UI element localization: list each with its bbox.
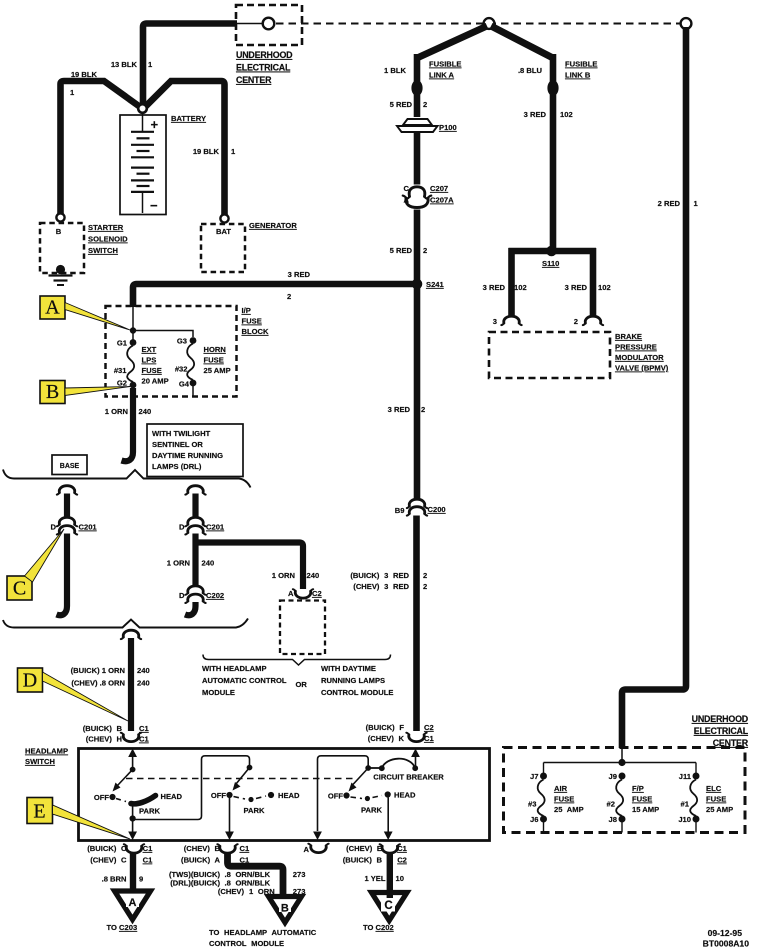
label TO HEADLAMP AUTOMATIC CONTROL MODULE: [209, 928, 317, 948]
labels 3 RED 102 (legs): [483, 283, 611, 292]
label P100: [439, 123, 457, 132]
labels (TWS)(BUICK) .8 ORN/BLK 273 rows: [169, 870, 306, 879]
svg-text:3 RED: 3 RED: [483, 283, 506, 292]
svg-text:AIR: AIR: [554, 784, 568, 793]
svg-text:BAT: BAT: [216, 227, 231, 236]
svg-text:FUSIBLE: FUSIBLE: [565, 60, 598, 69]
svg-text:(CHEV) E: (CHEV) E: [346, 844, 382, 853]
svg-text:J11: J11: [679, 772, 692, 781]
svg-text:(BUICK) A: (BUICK) A: [181, 856, 220, 865]
svg-text:HORN: HORN: [204, 345, 226, 354]
wire 1 ORN below fuse block: [122, 388, 134, 461]
switch 3 labels HEAD PARK: [361, 791, 416, 815]
svg-text:C1: C1: [240, 844, 250, 853]
labels (BUICK) 1 ORN 240 / (CHEV) .8 ORN 240: [71, 666, 150, 688]
switch 3 OFF terminal: [328, 792, 350, 801]
svg-text:C: C: [404, 184, 410, 193]
wire drl branch lower: [185, 602, 196, 615]
svg-text:C202: C202: [206, 591, 224, 600]
svg-text:BASE: BASE: [60, 463, 80, 470]
svg-text:.8 BLU: .8 BLU: [518, 66, 543, 75]
callout D: [43, 672, 129, 721]
switch 1 output arrow: [128, 819, 137, 841]
svg-text:MODULATOR: MODULATOR: [615, 353, 664, 362]
svg-text:PARK: PARK: [139, 807, 160, 816]
label HORN FUSE 25 AMP: [204, 345, 231, 375]
svg-text:SWITCH: SWITCH: [25, 757, 55, 766]
callout E: [53, 805, 131, 839]
wire stub inside UEC box: [237, 23, 263, 25]
connector E/B C1 C2 (output 4): [343, 844, 408, 865]
svg-text:G3: G3: [177, 337, 187, 346]
label .8 BLU: [518, 66, 543, 75]
svg-text:D: D: [51, 523, 57, 532]
HORN fuse #32: [175, 344, 194, 381]
svg-text:240: 240: [139, 407, 152, 416]
svg-text:C2: C2: [424, 723, 434, 732]
svg-text:G1: G1: [117, 339, 128, 348]
ground (starter solenoid): [49, 265, 73, 285]
label 1 ORN 240 (module leg): [272, 571, 319, 580]
svg-text:LINK A: LINK A: [429, 71, 455, 80]
wire 1 YEL to triangle C: [387, 853, 393, 898]
svg-text:RUNNING LAMPS: RUNNING LAMPS: [321, 676, 385, 685]
splice S110: [509, 246, 597, 268]
ELC fuse J11/J10 #1: [690, 763, 699, 833]
triangle B: [269, 897, 302, 923]
wire 2 RED right side down to UEC: [622, 27, 686, 748]
wire base branch upper: [64, 494, 70, 518]
svg-text:HEAD: HEAD: [394, 791, 416, 800]
svg-text:3 RED: 3 RED: [288, 270, 311, 279]
terminal circle starter: [56, 213, 64, 221]
svg-text:PRESSURE: PRESSURE: [615, 343, 657, 352]
svg-text:BLOCK: BLOCK: [242, 327, 270, 336]
switch 2 pivot: [247, 765, 253, 771]
svg-text:2: 2: [421, 405, 425, 414]
svg-text:(CHEV) 3 RED: (CHEV) 3 RED: [353, 582, 409, 591]
wire C200 down to headlamp switch: [413, 516, 420, 732]
svg-text:C1: C1: [397, 844, 407, 853]
svg-text:FUSE: FUSE: [204, 356, 224, 365]
svg-text:EXT: EXT: [142, 345, 157, 354]
triangle C: [372, 893, 408, 921]
svg-text:A: A: [304, 845, 310, 854]
svg-text:A: A: [129, 897, 137, 909]
svg-text:3: 3: [493, 317, 497, 326]
svg-text:1 ORN: 1 ORN: [105, 407, 128, 416]
switch 2 dashes and PARK HEAD terminals: [234, 792, 275, 802]
svg-text:TO C202: TO C202: [363, 923, 394, 932]
callout B: [65, 387, 130, 396]
node circle in UEC box: [263, 18, 275, 30]
section divider fold 1: [3, 470, 251, 488]
svg-text:C1: C1: [143, 856, 153, 865]
label 19 BLK 1 (right): [193, 147, 236, 156]
svg-text:−: −: [150, 198, 158, 213]
headlamp control module box: [280, 601, 325, 655]
svg-text:J10: J10: [678, 815, 691, 824]
wire S110 left leg: [508, 248, 515, 316]
switch 1 blade to OFF: [113, 770, 133, 792]
wire 13 BLK battery to underhood electrical center: [143, 24, 237, 105]
wire A terminal to switch 3 pivot: [318, 756, 369, 831]
connector C1 (headlamp switch feed): [121, 733, 141, 742]
svg-text:240: 240: [137, 666, 150, 675]
switch 2 output arrow from OFF: [225, 798, 234, 840]
pin 2 connector: [574, 316, 603, 326]
pin G2: [117, 379, 137, 389]
svg-text:ELC: ELC: [706, 784, 722, 793]
label 3 RED 2 (horizontal): [287, 270, 311, 301]
pin 3 connector: [493, 316, 522, 326]
switch 3 blade to OFF: [349, 768, 369, 792]
svg-text:.8 BRN: .8 BRN: [102, 875, 127, 884]
circuit breaker: [368, 759, 418, 771]
label TO C203: [107, 923, 138, 932]
label I/P FUSE BLOCK: [242, 306, 270, 336]
label 5 RED 2 (lower): [390, 246, 428, 255]
wire break (drl branch): [185, 486, 205, 495]
svg-text:5 RED: 5 RED: [390, 246, 413, 255]
svg-text:STARTER: STARTER: [88, 223, 124, 232]
pin G3: [177, 337, 197, 346]
brace under module: [203, 655, 391, 666]
labels (BUICK) B C1 / (CHEV) H C1: [83, 724, 150, 744]
svg-text:(BUICK) B: (BUICK) B: [343, 856, 383, 865]
svg-text:A: A: [45, 297, 60, 319]
wire drl branch middle: [192, 534, 198, 588]
svg-text:J6: J6: [530, 815, 538, 824]
label 19 BLK 1 (left): [70, 70, 98, 97]
BASE box: [52, 455, 87, 475]
terminal circle generator BAT: [220, 214, 228, 222]
svg-text:9: 9: [139, 875, 143, 884]
svg-text:D: D: [179, 523, 185, 532]
svg-text:2: 2: [423, 100, 427, 109]
circuit breaker entry arrow: [411, 749, 420, 769]
labels (BUICK) F C2 / (CHEV) K C1: [366, 723, 435, 743]
node circle at top junction (fusible links): [484, 18, 495, 29]
svg-text:J9: J9: [609, 772, 617, 781]
fusible link A bead: [411, 80, 422, 96]
svg-text:273: 273: [293, 870, 306, 879]
wire S110 right leg: [590, 248, 597, 316]
dashed wire across top: [276, 23, 683, 25]
svg-text:B: B: [281, 903, 289, 915]
svg-text:BT0008A10: BT0008A10: [703, 939, 750, 949]
svg-text:(CHEV) H: (CHEV) H: [86, 735, 122, 744]
svg-text:ELECTRICAL: ELECTRICAL: [694, 726, 749, 736]
svg-text:CIRCUIT BREAKER: CIRCUIT BREAKER: [373, 773, 444, 782]
svg-text:C1: C1: [139, 724, 149, 733]
junction node at battery top: [138, 104, 147, 113]
wire S241 down to C200: [414, 284, 421, 499]
wire to triangle B: [228, 852, 284, 902]
label 3 RED 102 (link B): [524, 110, 573, 119]
svg-text:UNDERHOOD: UNDERHOOD: [236, 50, 293, 60]
yellow label E: [27, 798, 53, 824]
svg-text:1 ORN: 1 ORN: [272, 571, 295, 580]
svg-text:102: 102: [560, 110, 573, 119]
svg-text:WITH TWILIGHT: WITH TWILIGHT: [152, 429, 211, 438]
svg-text:1 ORN: 1 ORN: [167, 559, 190, 568]
starter solenoid switch box: [40, 223, 84, 273]
svg-text:S110: S110: [542, 259, 559, 268]
svg-text:(CHEV) .8 ORN: (CHEV) .8 ORN: [71, 679, 125, 688]
svg-text:P100: P100: [439, 123, 457, 132]
callout A: [65, 303, 130, 331]
wire apex to fusible link B: [491, 26, 553, 58]
label 13 BLK 1: [111, 60, 153, 69]
svg-text:2: 2: [423, 582, 427, 591]
svg-text:(BUICK) F: (BUICK) F: [366, 723, 405, 732]
wire fusible link A down: [414, 54, 421, 117]
svg-text:C: C: [13, 578, 26, 600]
svg-text:A: A: [404, 196, 410, 205]
svg-text:FUSIBLE: FUSIBLE: [429, 60, 462, 69]
svg-text:C201: C201: [206, 523, 225, 532]
svg-text:(CHEV) C: (CHEV) C: [90, 856, 127, 865]
connector C2/C1 (headlamp switch feed): [406, 733, 426, 742]
svg-text:C200: C200: [428, 505, 446, 514]
wire into UEC and bus: [544, 748, 697, 766]
switch 1 entry arrow: [128, 749, 137, 770]
svg-text:09-12-95: 09-12-95: [708, 928, 743, 938]
svg-text:#31: #31: [114, 366, 127, 375]
wire branch to headlamp module: [196, 543, 304, 590]
with twilight sentinel box: [147, 424, 243, 477]
svg-text:PARK: PARK: [244, 806, 265, 815]
svg-text:LINK B: LINK B: [565, 71, 591, 80]
svg-text:(BUICK) 3 RED: (BUICK) 3 RED: [350, 571, 409, 580]
switch 1 park node: [130, 803, 136, 822]
label WITH HEADLAMP AUTOMATIC CONTROL MODULE OR WITH DAYTIME RUNNING LAMPS CONTROL MODULE: [202, 664, 393, 697]
svg-text:2: 2: [423, 571, 427, 580]
wire apex to fusible link A: [417, 26, 487, 58]
svg-text:CONTROL MODULE: CONTROL MODULE: [321, 688, 393, 697]
wire .8 BRN to triangle A: [130, 853, 136, 897]
svg-text:HEADLAMP: HEADLAMP: [25, 747, 68, 756]
label 3 RED 2 (middle): [388, 405, 426, 414]
svg-text:ELECTRICAL: ELECTRICAL: [236, 63, 291, 73]
node A junction in fuse block: [130, 307, 136, 340]
svg-text:SENTINEL OR: SENTINEL OR: [152, 440, 203, 449]
svg-text:SOLENOID: SOLENOID: [88, 235, 128, 244]
svg-text:FUSE: FUSE: [632, 795, 652, 804]
triangle A: [115, 891, 151, 920]
wire headlamp switch feed: [128, 638, 134, 731]
connector C200: [407, 499, 427, 515]
svg-text:1 YEL: 1 YEL: [365, 874, 386, 883]
svg-text:C201: C201: [79, 523, 98, 532]
labels J11 J10 #1 ELC FUSE 25 AMP: [678, 772, 733, 824]
label STARTER SOLENOID SWITCH: [88, 223, 128, 255]
pin G4: [179, 380, 197, 397]
label UNDERHOOD ELECTRICAL CENTER (top): [236, 50, 293, 85]
svg-text:C1: C1: [143, 844, 153, 853]
svg-text:2: 2: [287, 292, 291, 301]
wire break (base branch): [57, 486, 77, 495]
label GENERATOR: [249, 221, 297, 230]
wire C207 to S241: [414, 210, 421, 287]
label EXT LPS FUSE 20 AMP: [142, 345, 169, 386]
svg-text:MODULE: MODULE: [202, 688, 235, 697]
svg-text:C207: C207: [430, 184, 448, 193]
wire park to switch 2 pivot: [133, 756, 250, 820]
svg-text:OFF: OFF: [94, 793, 110, 802]
svg-text:2: 2: [574, 317, 578, 326]
section divider fold 2: [3, 619, 248, 628]
labels (BUICK) 3 RED 2 / (CHEV) 3 RED 2: [350, 571, 427, 591]
svg-text:D: D: [179, 591, 185, 600]
battery: [120, 113, 166, 215]
label 1 ORN 240 (drl): [167, 559, 214, 568]
svg-text:J8: J8: [609, 815, 617, 824]
connector C/C C1 (output 1): [87, 844, 153, 865]
svg-text:C: C: [384, 900, 392, 912]
svg-text:G4: G4: [179, 380, 190, 389]
underhood electrical center box (top): [236, 5, 302, 45]
labels C C207 A C207A: [404, 184, 455, 205]
svg-text:FUSE: FUSE: [242, 317, 262, 326]
label CIRCUIT BREAKER: [373, 773, 444, 782]
label FUSIBLE LINK A: [429, 60, 462, 80]
svg-text:102: 102: [514, 283, 527, 292]
switch 2 labels HEAD PARK: [244, 791, 301, 815]
wire to horn fuse: [133, 331, 193, 338]
svg-text:OFF: OFF: [328, 792, 344, 801]
svg-text:1 BLK: 1 BLK: [384, 66, 406, 75]
wire drl branch upper: [192, 494, 198, 518]
linkage dashed line: [126, 778, 357, 780]
brake pressure modulator valve box: [489, 332, 610, 378]
svg-text:2 RED: 2 RED: [658, 199, 681, 208]
svg-text:25 AMP: 25 AMP: [706, 805, 733, 814]
svg-text:102: 102: [598, 283, 611, 292]
svg-text:(CHEV) B: (CHEV) B: [184, 844, 221, 853]
yellow label B: [40, 381, 65, 404]
svg-text:D: D: [23, 670, 37, 692]
svg-text:HEAD: HEAD: [278, 791, 300, 800]
underhood electrical center box (bottom): [504, 748, 746, 833]
svg-text:LAMPS (DRL): LAMPS (DRL): [152, 462, 202, 471]
svg-text:(BUICK) C: (BUICK) C: [87, 844, 127, 853]
svg-text:OFF: OFF: [211, 791, 227, 800]
switch 1 OFF terminal: [94, 793, 116, 802]
label .8 BRN 9: [102, 875, 144, 884]
wire break (headlamp feed): [121, 630, 141, 639]
AIR fuse J7/J6 #3: [538, 763, 547, 833]
svg-text:5 RED: 5 RED: [390, 100, 413, 109]
svg-text:3 RED: 3 RED: [565, 283, 588, 292]
connector C201 (base): [51, 517, 98, 534]
svg-text:VALVE (BPMV): VALVE (BPMV): [615, 364, 669, 373]
label 1 YEL 10: [365, 874, 404, 883]
splice S241: [412, 279, 445, 290]
label 1 BLK: [384, 66, 406, 75]
svg-text:C1: C1: [139, 735, 149, 744]
yellow label D: [18, 668, 43, 692]
headlamp switch box: [79, 749, 490, 841]
svg-text:C2: C2: [397, 856, 407, 865]
svg-text:TO C203: TO C203: [107, 923, 138, 932]
switch 2 OFF terminal: [211, 791, 233, 800]
svg-text:B: B: [46, 381, 59, 403]
svg-text:AUTOMATIC CONTROL: AUTOMATIC CONTROL: [202, 676, 287, 685]
svg-text:FUSE: FUSE: [554, 795, 574, 804]
svg-text:FUSE: FUSE: [706, 795, 726, 804]
label BRAKE PRESSURE MODULATOR VALVE (BPMV): [615, 332, 669, 373]
svg-text:240: 240: [137, 679, 150, 688]
fusible link B bead: [547, 80, 558, 96]
switch 1 labels HEAD PARK: [139, 792, 183, 816]
svg-text:PARK: PARK: [361, 806, 382, 815]
svg-text:BRAKE: BRAKE: [615, 332, 642, 341]
svg-text:2: 2: [423, 246, 427, 255]
svg-text:19 BLK: 19 BLK: [193, 147, 220, 156]
svg-text:CONTROL MODULE: CONTROL MODULE: [209, 939, 284, 948]
svg-text:S241: S241: [426, 280, 445, 289]
svg-text:WITH DAYTIME: WITH DAYTIME: [321, 664, 376, 673]
svg-text:13 BLK: 13 BLK: [111, 60, 138, 69]
switch 1 dash off-park: [116, 799, 126, 802]
svg-text:GENERATOR: GENERATOR: [249, 221, 297, 230]
labels B9 C200: [395, 505, 446, 515]
switch 1 head blade (bold): [131, 796, 156, 804]
connector P100: [397, 119, 438, 132]
svg-text:LPS: LPS: [142, 356, 157, 365]
connector A C2 (module): [288, 589, 322, 598]
yellow label A: [40, 296, 65, 319]
connector B/A C1 (output 2): [181, 844, 250, 865]
connector C202: [179, 586, 224, 603]
svg-text:25 AMP: 25 AMP: [554, 805, 584, 814]
label FUSIBLE LINK B: [565, 60, 598, 80]
wire 3 RED horizontal to I/P fuse block: [133, 284, 413, 307]
svg-text:(CHEV): (CHEV): [218, 887, 245, 896]
svg-text:19 BLK: 19 BLK: [71, 70, 98, 79]
callout C: [25, 529, 65, 582]
svg-text:J7: J7: [530, 772, 538, 781]
labels J7 J6 #3 AIR FUSE 25 AMP: [528, 772, 584, 824]
svg-text:SWITCH: SWITCH: [88, 246, 118, 255]
svg-text:(DRL)(BUICK): (DRL)(BUICK): [170, 879, 220, 888]
switch 3 dashes and PARK HEAD terminals: [351, 791, 391, 801]
connector C201 (drl): [179, 517, 225, 534]
svg-text:15 AMP: 15 AMP: [632, 805, 659, 814]
svg-text:240: 240: [307, 571, 320, 580]
svg-text:#1: #1: [681, 800, 690, 809]
svg-text:(CHEV) K: (CHEV) K: [368, 734, 405, 743]
label TO C202: [363, 923, 394, 932]
svg-text:G2: G2: [117, 379, 127, 388]
svg-text:B: B: [56, 227, 62, 236]
switch 1 pivot: [130, 767, 136, 773]
svg-text:10: 10: [396, 874, 404, 883]
svg-text:(BUICK) 1 ORN: (BUICK) 1 ORN: [71, 666, 125, 675]
svg-text:240: 240: [202, 559, 215, 568]
svg-text:3 RED: 3 RED: [388, 405, 411, 414]
svg-text:#3: #3: [528, 800, 536, 809]
svg-text:C2: C2: [312, 589, 322, 598]
svg-text:F/P: F/P: [632, 784, 644, 793]
svg-text:OR: OR: [296, 680, 308, 689]
label BATTERY: [171, 114, 206, 123]
plate date 09-12-95 BT0008A10: [703, 928, 750, 949]
svg-text:+: +: [151, 117, 159, 132]
generator box: [201, 224, 245, 272]
